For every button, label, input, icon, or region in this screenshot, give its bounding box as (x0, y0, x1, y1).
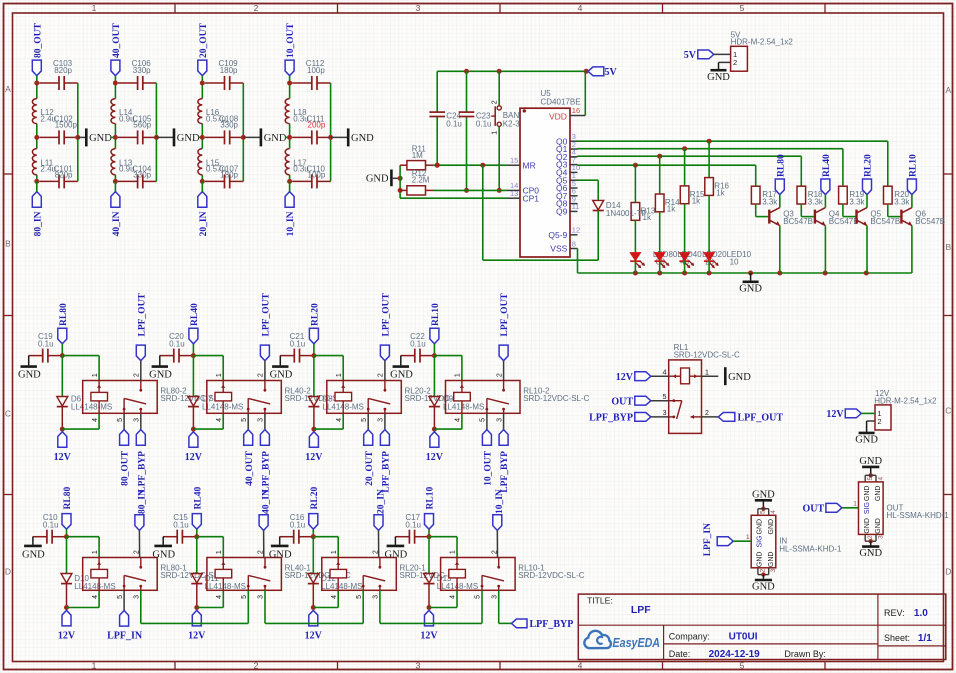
wire RL10 node (432, 344, 462, 397)
net port LPF_OUT (row C RL40) (260, 293, 271, 381)
svg-text:80_IN: 80_IN (137, 489, 147, 514)
svg-text:11: 11 (572, 202, 580, 211)
net port 20_IN (198, 181, 209, 236)
svg-text:5: 5 (356, 595, 363, 599)
svg-text:GND: GND (177, 133, 200, 144)
resistor R14 (655, 156, 680, 214)
svg-text:LPF_BYP: LPF_BYP (262, 451, 272, 493)
wire 12V node (row D RL10) (427, 590, 458, 610)
resistor R16 (705, 141, 730, 197)
svg-text:Drawn By:: Drawn By: (784, 649, 826, 659)
led LED10 (704, 195, 752, 273)
svg-text:GND: GND (752, 489, 775, 500)
wire mid gnd link (285, 136, 290, 138)
svg-text:A: A (945, 85, 951, 95)
svg-text:Q5-9: Q5-9 (548, 230, 567, 240)
net port 12V (row D RL40) (188, 610, 206, 641)
wire MR net (433, 163, 520, 168)
svg-text:0.1u: 0.1u (410, 340, 426, 349)
svg-text:LPF_IN: LPF_IN (107, 630, 143, 641)
svg-text:GND: GND (89, 133, 112, 144)
svg-text:820p: 820p (55, 170, 73, 179)
net port 80_OUT (row C) (120, 413, 131, 486)
svg-text:RL20: RL20 (310, 487, 320, 510)
svg-text:1k: 1k (716, 188, 725, 197)
svg-text:12: 12 (572, 226, 580, 235)
svg-text:5: 5 (361, 418, 368, 422)
svg-text:1500p: 1500p (55, 120, 78, 129)
svg-text:3: 3 (770, 568, 777, 572)
net port 5V (header) (684, 50, 714, 61)
capacitor C109 (205, 59, 243, 90)
svg-text:4: 4 (92, 418, 99, 422)
easyeda logo (584, 631, 660, 650)
net port LPF_IN (107, 590, 143, 641)
svg-text:LL4148-MS: LL4148-MS (71, 402, 112, 411)
wire Q3 net (578, 163, 756, 168)
svg-text:LPF_IN: LPF_IN (703, 523, 713, 556)
wire mid gnd link (110, 136, 115, 138)
wire 10m left rail (287, 76, 292, 184)
svg-text:330p: 330p (133, 66, 151, 75)
net port 20_OUT (row C) (364, 413, 375, 486)
svg-text:Q9: Q9 (556, 207, 568, 217)
wire mid gnd link (198, 136, 202, 138)
svg-text:RL10: RL10 (426, 487, 436, 510)
svg-text:1: 1 (492, 131, 499, 135)
svg-text:LPF_BYP: LPF_BYP (137, 451, 147, 493)
diode D11 (191, 574, 246, 608)
svg-text:VDD: VDD (549, 111, 567, 121)
svg-text:10_OUT: 10_OUT (484, 450, 494, 486)
svg-text:2: 2 (733, 58, 737, 67)
wire Q6 collector/emitter (911, 195, 913, 273)
diode D8 (308, 395, 363, 430)
net port 20_IN (row D) (374, 489, 386, 557)
svg-text:GND: GND (859, 456, 882, 467)
relay RL40-2 (207, 373, 351, 422)
svg-text:3.3k: 3.3k (808, 197, 824, 206)
capacitor C106 (118, 59, 156, 90)
svg-text:4: 4 (455, 418, 462, 422)
svg-text:LPF_BYP: LPF_BYP (530, 619, 574, 630)
svg-text:BC547B: BC547B (829, 217, 859, 226)
led LED80 (630, 220, 678, 273)
wire CP0 net (433, 189, 520, 191)
relay RL10-2 (446, 373, 590, 422)
net port OUT (SMA) (803, 503, 859, 514)
led LED20 (679, 204, 727, 273)
svg-text:0.1u: 0.1u (405, 520, 421, 529)
wire RL80 node (row D) (64, 529, 99, 573)
svg-text:GND: GND (390, 369, 413, 380)
net port 12V (RL1) (616, 372, 669, 383)
capacitor C107 (205, 164, 243, 188)
capacitor C105 (118, 114, 156, 144)
svg-text:13: 13 (510, 189, 518, 198)
svg-text:GND: GND (875, 486, 882, 502)
svg-text:820p: 820p (54, 66, 72, 75)
svg-text:10_IN: 10_IN (495, 489, 505, 514)
svg-text:1: 1 (92, 661, 97, 671)
wire Q2 net (578, 154, 802, 159)
svg-text:2: 2 (705, 410, 709, 417)
svg-text:4: 4 (450, 595, 457, 599)
svg-text:GND: GND (875, 518, 882, 534)
svg-text:2: 2 (134, 373, 141, 377)
svg-text:RL40: RL40 (822, 154, 832, 177)
inductor L16 (198, 99, 226, 124)
ground (5V header) (707, 62, 730, 82)
svg-text:GND: GND (864, 518, 871, 534)
svg-text:10: 10 (730, 258, 739, 267)
inductor L11 (32, 149, 56, 175)
net port RL20 (driver) (863, 154, 874, 195)
svg-text:2: 2 (760, 568, 767, 572)
ground (OUT top) (859, 456, 882, 478)
svg-text:12V: 12V (826, 409, 844, 420)
svg-text:4: 4 (92, 595, 99, 599)
svg-text:2: 2 (254, 661, 259, 671)
svg-text:5: 5 (760, 510, 767, 514)
transistor Q5 (843, 204, 900, 226)
svg-text:12V: 12V (305, 452, 323, 463)
net port RL10 (row C) (430, 303, 441, 344)
svg-text:5V: 5V (605, 67, 618, 78)
svg-text:5: 5 (241, 418, 248, 422)
svg-text:1: 1 (853, 501, 857, 508)
diode D10 (61, 574, 116, 608)
wire RL40-1 pin3 drop (264, 590, 266, 623)
net port LPF_BYP (row C RL20) (380, 413, 391, 492)
svg-text:HL-SSMA-KHD-1: HL-SSMA-KHD-1 (887, 511, 950, 520)
svg-text:GND: GND (385, 550, 408, 561)
svg-text:4: 4 (877, 477, 884, 481)
capacitor C23 (459, 71, 492, 193)
svg-text:1: 1 (92, 3, 97, 13)
svg-text:2024-12-19: 2024-12-19 (709, 649, 761, 660)
inductor L15 (198, 149, 226, 175)
svg-text:GND: GND (149, 369, 172, 380)
capacitor C110 (292, 164, 330, 188)
svg-text:12V: 12V (616, 372, 634, 383)
wire 12V node (row D RL40) (194, 590, 223, 610)
wire RL20 node (row D) (311, 529, 338, 573)
svg-text:B: B (945, 242, 951, 252)
svg-text:200p: 200p (308, 120, 326, 129)
svg-text:1: 1 (746, 534, 750, 541)
svg-text:40_IN: 40_IN (262, 489, 272, 514)
resistor R15 (680, 149, 705, 206)
net port 80_IN (32, 181, 43, 236)
inductor L14 (111, 99, 135, 124)
wire 10m ground rail (328, 83, 347, 181)
svg-text:3: 3 (258, 418, 265, 422)
svg-text:5: 5 (241, 595, 248, 599)
ground (R11/R12) (366, 165, 403, 198)
svg-text:80_OUT: 80_OUT (33, 23, 43, 59)
relay RL20-1 (322, 550, 466, 599)
svg-text:RL80: RL80 (59, 303, 69, 326)
net port 10_IN (row D) (493, 489, 505, 557)
net port 12V (row C RL40) (185, 432, 203, 463)
svg-text:0.1u: 0.1u (38, 340, 54, 349)
svg-text:A: A (5, 84, 11, 94)
svg-text:LPF_OUT: LPF_OUT (382, 293, 392, 337)
svg-text:10_OUT: 10_OUT (286, 23, 296, 59)
wire RL80-1 pin3 drop (140, 590, 142, 623)
svg-text:GND: GND (264, 133, 287, 144)
svg-text:40_OUT: 40_OUT (245, 450, 255, 486)
wire 5V rail (437, 69, 589, 74)
net port 12V (row D RL80) (58, 610, 76, 641)
net port 12V (row C RL20) (305, 432, 323, 463)
svg-text:4: 4 (578, 3, 583, 13)
svg-text:BC547B: BC547B (870, 217, 900, 226)
capacitor C21 (280, 332, 312, 363)
svg-text:SIG: SIG (864, 502, 871, 514)
svg-text:GND: GND (707, 72, 730, 83)
wire bypass chain into RL20-1 pin5 (265, 590, 363, 623)
svg-text:1: 1 (336, 373, 343, 377)
svg-text:3: 3 (378, 418, 385, 422)
ground (C17) (385, 537, 408, 561)
diode D7 (188, 395, 243, 430)
ground (C16) (269, 537, 292, 561)
net port 40_IN (111, 181, 122, 236)
svg-text:180p: 180p (220, 170, 238, 179)
svg-text:RL80: RL80 (63, 487, 73, 510)
svg-text:0.1u: 0.1u (290, 340, 306, 349)
capacitor C101 (39, 164, 77, 188)
svg-text:UT0UI: UT0UI (729, 632, 758, 643)
svg-text:SIG: SIG (757, 535, 764, 547)
relay RL10-1 (441, 550, 585, 599)
transistor Q4 (801, 204, 858, 226)
svg-text:GND: GND (864, 486, 871, 502)
ground 80m (86, 128, 112, 146)
capacitor C10 (33, 513, 65, 544)
svg-text:SRD-12VDC-SL-C: SRD-12VDC-SL-C (674, 350, 740, 359)
svg-text:0.1u: 0.1u (173, 520, 189, 529)
ground (C21) (270, 356, 293, 381)
ground (C10) (22, 537, 45, 561)
inductor L13 (111, 149, 135, 175)
svg-text:1: 1 (92, 550, 99, 554)
capacitor C111 (292, 114, 330, 144)
svg-text:GND: GND (752, 582, 775, 593)
svg-text:LL4148-MS: LL4148-MS (443, 402, 484, 411)
svg-text:0.1u: 0.1u (476, 120, 492, 129)
svg-text:3: 3 (258, 595, 265, 599)
svg-text:RL80: RL80 (776, 154, 786, 177)
net port RL80 (driver) (775, 154, 786, 195)
wire RL20-1 pin3 drop (379, 590, 381, 623)
svg-text:80_IN: 80_IN (33, 211, 43, 236)
svg-text:CP1: CP1 (523, 193, 540, 203)
svg-text:20_IN: 20_IN (199, 211, 209, 236)
wire RL80 node (60, 344, 99, 397)
diode D12 (308, 574, 363, 608)
net port 10_OUT (row C) (482, 413, 493, 486)
net port RL80 (row D) (62, 487, 73, 530)
svg-text:OUT: OUT (611, 396, 633, 407)
svg-text:MR: MR (523, 160, 536, 170)
svg-text:1: 1 (331, 550, 338, 554)
svg-text:1k: 1k (667, 205, 676, 214)
svg-text:100p: 100p (308, 170, 326, 179)
net port RL20 (row C) (309, 303, 320, 344)
diode D14 (483, 165, 647, 260)
svg-text:GND: GND (768, 552, 775, 568)
svg-text:100p: 100p (307, 66, 325, 75)
wire RL10 node (row D) (427, 529, 458, 573)
net port 12V (row C RL10) (426, 432, 444, 463)
svg-text:1: 1 (216, 550, 223, 554)
resistor R12 (400, 169, 433, 195)
ground (C15) (152, 537, 175, 561)
net port 10_IN (285, 181, 296, 236)
net port LPF_BYP (row D) (512, 619, 574, 630)
ground (LED rail) (739, 273, 762, 294)
led LED40 (655, 212, 703, 273)
svg-text:2: 2 (258, 373, 265, 377)
pushbutton BAND (491, 71, 564, 193)
svg-text:12V: 12V (188, 630, 206, 641)
svg-text:1: 1 (216, 373, 223, 377)
svg-text:20_OUT: 20_OUT (199, 23, 209, 59)
svg-text:5: 5 (867, 477, 874, 481)
svg-text:4: 4 (216, 418, 223, 422)
svg-text:OUT: OUT (803, 503, 825, 514)
svg-text:1N4001-TP: 1N4001-TP (606, 209, 647, 218)
svg-text:8: 8 (572, 239, 576, 248)
svg-text:3: 3 (373, 595, 380, 599)
net port 40_OUT (111, 23, 122, 76)
svg-text:10_IN: 10_IN (286, 211, 296, 236)
resistor R13 (631, 165, 656, 222)
wire 40m ground rail (154, 83, 173, 181)
svg-text:15: 15 (510, 156, 518, 165)
svg-text:40_OUT: 40_OUT (112, 23, 122, 59)
svg-text:1.0: 1.0 (914, 608, 928, 619)
svg-text:2: 2 (492, 100, 499, 104)
net port LPF_OUT (RL1) (702, 413, 784, 424)
wire RL40 node (row D) (194, 529, 223, 573)
svg-text:1/1: 1/1 (918, 633, 932, 644)
svg-text:RL20: RL20 (864, 154, 874, 177)
wire RL40 node (191, 344, 223, 397)
net port 12V (row D RL10) (420, 610, 438, 641)
ground 10m (348, 128, 374, 146)
svg-text:Company:: Company: (669, 632, 710, 642)
capacitor C17 (395, 513, 427, 544)
svg-text:GND: GND (768, 519, 775, 535)
wire Q4 collector/emitter (824, 195, 826, 273)
svg-text:2: 2 (877, 417, 881, 426)
svg-text:RL20: RL20 (311, 303, 321, 326)
capacitor C103 (39, 59, 77, 90)
net port 12V (header) (826, 409, 861, 420)
svg-text:1: 1 (450, 550, 457, 554)
net port 20_OUT (198, 23, 209, 76)
svg-text:LPF_OUT: LPF_OUT (137, 293, 147, 337)
svg-text:1k: 1k (692, 197, 701, 206)
svg-text:12V: 12V (58, 630, 76, 641)
svg-text:5: 5 (117, 418, 124, 422)
svg-text:SRD-12VDC-SL-C: SRD-12VDC-SL-C (523, 394, 589, 403)
svg-text:4: 4 (216, 595, 223, 599)
net port RL10 (driver) (907, 154, 918, 195)
svg-text:4: 4 (336, 418, 343, 422)
net port LPF_OUT (row C RL20) (380, 293, 391, 381)
svg-text:GND: GND (855, 435, 878, 446)
svg-text:LPF: LPF (631, 604, 651, 616)
svg-text:C: C (5, 409, 11, 419)
ground (RL1) (702, 367, 752, 385)
capacitor C22 (401, 332, 433, 363)
relay RL80-1 (83, 550, 227, 599)
svg-text:D: D (5, 567, 11, 577)
svg-text:RL10: RL10 (909, 154, 919, 177)
wire bypass chain to LPF_BYP (499, 622, 512, 624)
wire LED ground rail (578, 271, 912, 276)
svg-text:3: 3 (491, 595, 498, 599)
net port RL40 (row C) (189, 303, 200, 344)
relay RL20-2 (327, 373, 471, 422)
svg-text:RL40: RL40 (193, 487, 203, 510)
relay RL40-1 (207, 550, 351, 599)
resistor R11 (400, 144, 433, 170)
capacitor C15 (163, 513, 195, 544)
ground (C22) (390, 356, 413, 381)
wire 12V node (row C RL40) (191, 413, 223, 431)
svg-text:3: 3 (877, 535, 884, 539)
svg-text:3.3k: 3.3k (849, 197, 865, 206)
svg-text:GND: GND (757, 519, 764, 535)
svg-text:5: 5 (740, 3, 745, 13)
svg-text:12V: 12V (420, 630, 438, 641)
inductor L12 (32, 99, 56, 124)
svg-text:5: 5 (480, 418, 487, 422)
svg-text:BC547B: BC547B (915, 217, 945, 226)
svg-text:RL40: RL40 (190, 303, 200, 326)
diode D13 (424, 574, 479, 608)
net port RL40 (driver) (821, 154, 832, 195)
svg-text:560p: 560p (133, 120, 151, 129)
diode D9 (429, 395, 484, 430)
wire 80m ground rail (75, 83, 85, 181)
inductor L18 (285, 99, 309, 124)
svg-text:3.3k: 3.3k (762, 197, 778, 206)
svg-text:CD4017BE: CD4017BE (541, 98, 581, 107)
title block (578, 594, 946, 660)
svg-text:2: 2 (496, 373, 503, 377)
svg-text:HDR-M-2.54_1x2: HDR-M-2.54_1x2 (874, 397, 937, 406)
svg-text:SRD-12VDC-SL-C: SRD-12VDC-SL-C (518, 571, 584, 580)
net port LPF_OUT (row C RL10) (499, 293, 510, 381)
svg-text:3: 3 (416, 661, 421, 671)
svg-text:GND: GND (18, 369, 41, 380)
svg-text:5: 5 (663, 394, 667, 401)
resistor R19 (839, 149, 866, 207)
connector J1 (IN) (746, 509, 842, 593)
wire 20m ground rail (241, 83, 260, 181)
svg-text:TITLE:: TITLE: (587, 595, 613, 605)
svg-text:5: 5 (117, 595, 124, 599)
header P1 5V HDR-M-2.54_1x2 (714, 30, 794, 71)
svg-text:GND: GND (366, 174, 389, 185)
